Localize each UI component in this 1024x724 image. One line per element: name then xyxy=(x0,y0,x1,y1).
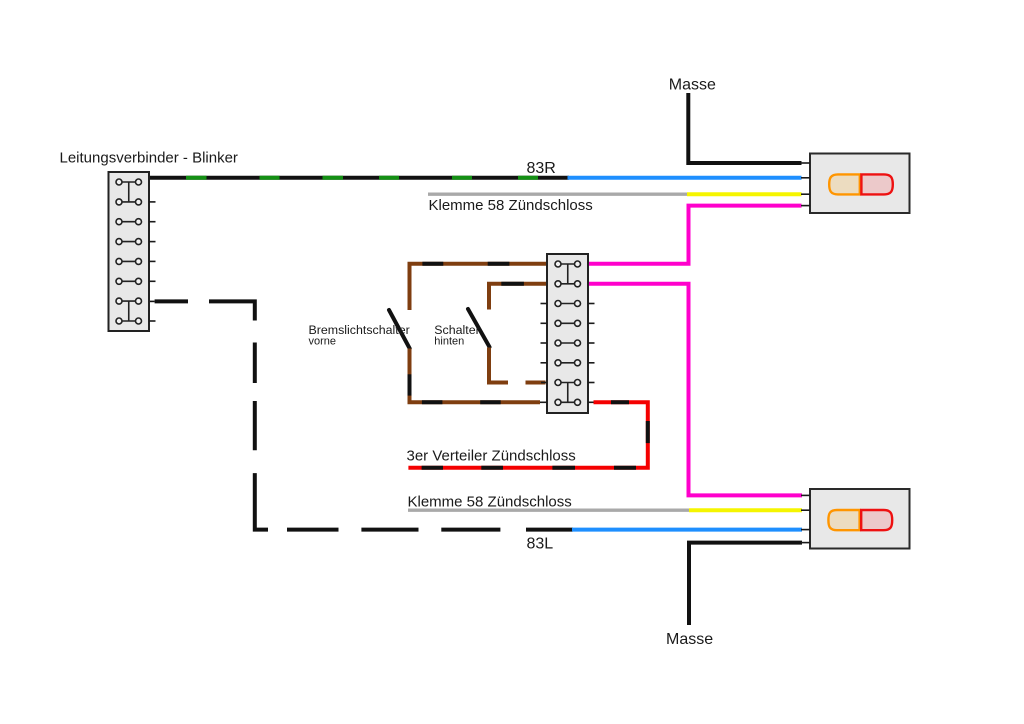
wire brown B upper (connector row2 to Schalter hinten) xyxy=(489,284,547,310)
wire brown B upper black dash xyxy=(501,282,524,286)
svg-text:vorne: vorne xyxy=(309,336,337,348)
svg-text:83L: 83L xyxy=(527,536,554,553)
wire red 3er Verteiler base xyxy=(408,402,647,467)
connector J1 right ticks xyxy=(149,202,156,321)
wire black dashed connector row7 to 83L: dash segments xyxy=(149,301,573,529)
wire brown A lower (switch to connector row8) xyxy=(410,349,541,403)
wire Klemme 58 bottom gray segment xyxy=(408,509,689,512)
lamp L2 pin stubs xyxy=(801,495,810,542)
svg-text:Schalter: Schalter xyxy=(434,323,479,337)
svg-text:3er Verteiler Zündschloss: 3er Verteiler Zündschloss xyxy=(407,447,576,464)
connector J1 pins xyxy=(116,179,142,324)
wire Klemme 58 top gray segment xyxy=(428,192,687,195)
svg-text:83R: 83R xyxy=(527,160,556,177)
lamp L1 bulb right red half xyxy=(861,174,892,194)
wire brown A upper (connector row1 to Bremslichtschalter vorne) xyxy=(410,264,548,310)
wire magenta connector row2 to bottom lamp xyxy=(588,284,802,496)
wire Masse bottom xyxy=(689,543,802,625)
connector J1 Leitungsverbinder body xyxy=(109,172,150,331)
wire magenta top lamp to connector row1 xyxy=(588,206,802,264)
svg-text:Klemme 58 Zündschloss: Klemme 58 Zündschloss xyxy=(429,197,593,214)
wire 83R blue segment xyxy=(568,176,802,180)
svg-text:hinten: hinten xyxy=(434,336,464,348)
connector J2 pins xyxy=(555,261,581,405)
wire brown B lower (switch to connector row7) xyxy=(489,348,508,383)
wire Klemme 58 bottom yellow segment xyxy=(689,508,802,512)
wire 83L blue segment xyxy=(572,528,802,532)
svg-text:Masse: Masse xyxy=(669,76,716,93)
wire brown A upper black dashes xyxy=(422,262,509,266)
lamp L1 pin stubs xyxy=(801,163,810,206)
wire 83R black segment xyxy=(149,176,569,180)
wire 83R green dashes xyxy=(186,176,538,180)
svg-text:Masse: Masse xyxy=(666,631,713,648)
wire Masse top xyxy=(688,93,801,163)
wire red 3er Verteiler black dashes xyxy=(422,402,648,467)
wire Klemme 58 top yellow segment xyxy=(687,192,802,196)
wire brown B lower dash segment xyxy=(526,381,546,385)
svg-text:Leitungsverbinder - Blinker: Leitungsverbinder - Blinker xyxy=(60,149,238,166)
lamp L2 bulb left orange half xyxy=(828,510,859,530)
switch Bremslichtschalter vorne blade xyxy=(389,310,410,349)
switch Schalter hinten blade xyxy=(468,309,490,347)
lamp L1 right indicator box xyxy=(810,154,910,214)
connector J2 side ticks xyxy=(540,304,595,403)
lamp L1 bulb left orange half xyxy=(829,174,860,194)
lamp L2 right indicator box xyxy=(810,489,910,549)
connector J2 Verteiler body xyxy=(547,254,588,413)
wire brown A lower black dashes xyxy=(410,374,501,402)
svg-text:Bremslichtschalter: Bremslichtschalter xyxy=(309,323,410,337)
svg-text:Klemme 58 Zündschloss: Klemme 58 Zündschloss xyxy=(408,494,572,511)
lamp L2 bulb right red half xyxy=(861,510,892,530)
